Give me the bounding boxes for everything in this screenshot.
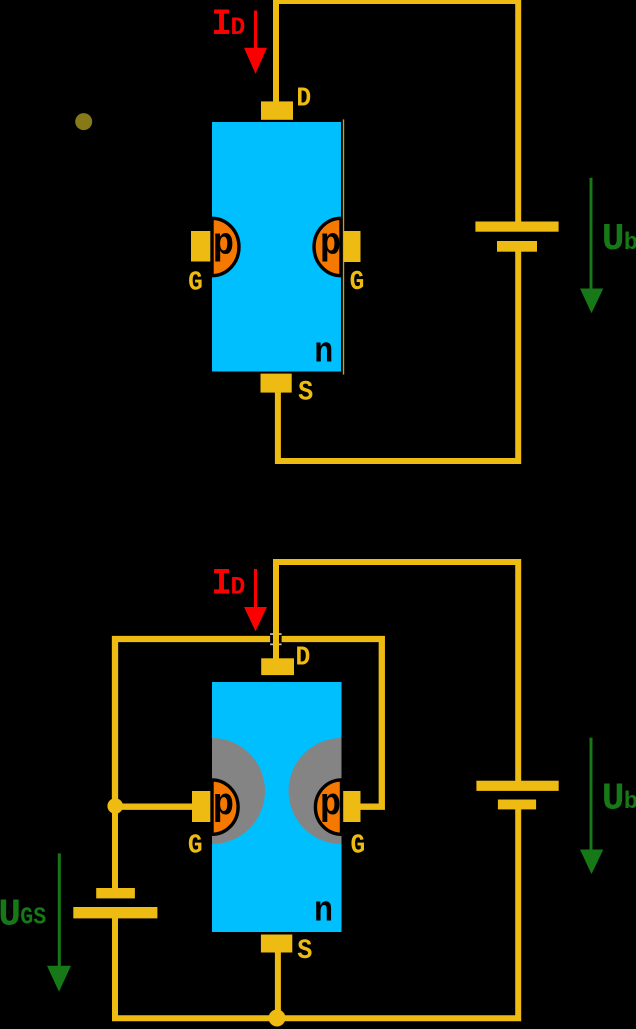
svg-text:b: b [624,230,636,257]
svg-text:GS: GS [20,905,46,932]
svg-text:G: G [351,831,366,861]
edge line right of n body (top transistor) [343,119,344,374]
crossover bracket tick bottom-right [278,644,281,646]
svg-text:n: n [314,890,333,931]
svg-text:D: D [231,13,246,42]
battery U_b (top) long plate [475,222,558,232]
junction node (gate tap) [107,798,123,814]
wire: source/bottom return (bottom circuit) [115,809,518,1018]
battery U_GS long plate (bottom) [73,907,157,918]
contact pad S (bottom) [261,935,292,953]
voltage arrow U_b (bottom) shaft [590,738,593,850]
wire: drain loop (top circuit) [276,1,518,222]
depletion region left (bottom transistor) [212,738,265,844]
svg-text:G: G [350,268,365,298]
svg-text:D: D [296,84,311,114]
svg-text:n: n [314,332,333,373]
current arrow I_D (top) shaft [254,11,257,49]
svg-text:b: b [624,789,636,816]
battery U_b (bottom) long plate [476,781,558,791]
wire: gate tap down to U_GS battery [112,806,118,888]
svg-text:I: I [212,563,232,605]
p region left (top transistor) [212,218,239,275]
battery U_GS short plate (top) [96,888,135,898]
voltage arrow U_GS shaft [58,853,61,966]
wire: source return (top circuit) [278,251,518,461]
svg-text:D: D [296,644,311,674]
svg-text:D: D [231,572,246,601]
voltage arrow U_GS head [47,966,71,992]
svg-text:G: G [188,268,203,298]
svg-text:U: U [602,218,625,261]
n-channel body (top transistor) [212,122,341,372]
p region right (bottom transistor) [315,780,341,834]
contact pad D (bottom) [261,658,294,675]
wire: drain loop (bottom circuit) [276,562,518,781]
gate contact pad G left (bottom) [192,791,212,822]
crossover gap (drain wire over gate wire) [270,633,282,645]
n-channel body (bottom transistor) [212,682,342,932]
svg-text:p: p [320,222,341,265]
svg-text:S: S [298,378,313,409]
wire: source stub (bottom circuit) [275,950,281,1018]
crossover bracket tick top-left [270,633,273,635]
svg-text:U: U [602,777,625,820]
voltage arrow U_b (bottom) head [580,850,603,875]
gate contact pad G right (top) [344,231,361,262]
p region left (bottom transistor) [212,780,238,834]
crossover bracket tick bottom-left [270,644,273,646]
current arrow I_D (bottom) shaft [254,569,257,608]
depletion region right (bottom transistor) [289,738,342,844]
svg-text:U: U [0,893,21,936]
current arrow I_D (top) head [244,48,267,74]
node dot (stray, top left) [75,113,92,130]
svg-text:p: p [213,222,234,265]
svg-text:p: p [320,783,341,826]
current arrow I_D (bottom) head [244,607,267,631]
crossover bracket tick top-right [278,633,281,635]
contact pad S (top) [261,374,292,393]
junction node (source/bottom) [269,1010,286,1027]
svg-text:S: S [297,936,312,967]
p region right (top transistor) [314,218,341,275]
svg-text:I: I [212,4,232,46]
battery U_b (bottom) short plate [498,800,536,810]
contact pad D (top) [261,101,293,119]
svg-text:p: p [213,783,234,826]
voltage arrow U_b (top) head [580,289,603,314]
svg-text:G: G [188,831,203,861]
voltage arrow U_b (top) shaft [590,178,593,290]
wire: gate frame (bottom circuit) [115,639,382,807]
battery U_b (top) short plate [497,241,537,252]
gate contact pad G left (top) [191,231,212,262]
gate contact pad G right (bottom) [342,791,361,822]
